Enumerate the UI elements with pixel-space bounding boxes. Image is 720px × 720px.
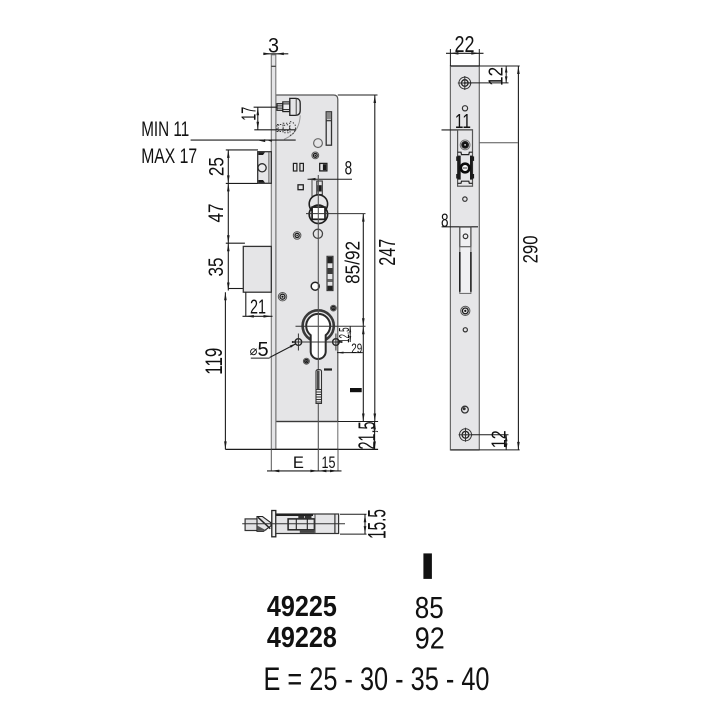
svg-text:15: 15 xyxy=(322,454,336,472)
svg-text:29: 29 xyxy=(351,340,362,356)
svg-text:17: 17 xyxy=(239,107,261,121)
svg-text:E = 25 - 30 - 35 - 40: E = 25 - 30 - 35 - 40 xyxy=(264,661,490,697)
svg-text:8: 8 xyxy=(441,210,449,232)
svg-text:290: 290 xyxy=(519,235,542,263)
svg-text:22: 22 xyxy=(455,31,475,57)
svg-text:21: 21 xyxy=(250,297,266,319)
svg-text:MIN 11: MIN 11 xyxy=(141,118,189,141)
svg-text:49225: 49225 xyxy=(267,591,337,623)
svg-text:12: 12 xyxy=(489,430,511,448)
svg-text:92: 92 xyxy=(415,621,445,656)
svg-text:8: 8 xyxy=(345,158,353,180)
svg-text:MAX 17: MAX 17 xyxy=(141,145,197,168)
svg-text:49228: 49228 xyxy=(267,622,337,654)
svg-text:21,5: 21,5 xyxy=(354,422,381,450)
svg-text:35: 35 xyxy=(205,258,228,277)
svg-text:3: 3 xyxy=(268,34,279,57)
svg-text:47: 47 xyxy=(205,204,228,223)
svg-text:E: E xyxy=(293,454,304,472)
svg-text:247: 247 xyxy=(374,239,400,266)
svg-text:15.5: 15.5 xyxy=(364,509,392,539)
svg-text:119: 119 xyxy=(201,348,228,375)
svg-text:⌀: ⌀ xyxy=(250,343,258,358)
svg-text:25: 25 xyxy=(206,157,229,176)
svg-text:12: 12 xyxy=(486,67,508,86)
svg-text:85/92: 85/92 xyxy=(342,241,364,284)
